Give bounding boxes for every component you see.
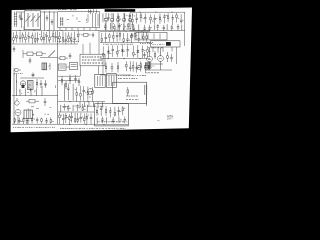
resistor R104 xyxy=(81,34,91,37)
wire xyxy=(105,13,107,18)
value label xyxy=(13,126,55,128)
resistor R19 xyxy=(59,32,61,43)
transistor T6 xyxy=(147,56,153,62)
wire xyxy=(114,13,133,30)
resistor R59 xyxy=(65,113,67,123)
capacitor C102 xyxy=(69,53,72,59)
wire xyxy=(181,25,183,31)
resistor R68 xyxy=(105,106,107,115)
wire xyxy=(102,59,104,75)
transistor T4 xyxy=(122,18,125,21)
wire xyxy=(84,102,86,108)
resistor R7 xyxy=(167,13,169,22)
wire xyxy=(129,22,131,31)
value label xyxy=(178,18,179,20)
wire xyxy=(124,13,126,21)
wire xyxy=(58,123,128,125)
wire xyxy=(100,30,150,32)
resistor R70 xyxy=(122,106,124,115)
capacitor C41 xyxy=(44,98,46,106)
value label xyxy=(120,18,121,20)
wire xyxy=(86,105,88,112)
value label xyxy=(44,33,47,35)
value label xyxy=(136,35,137,37)
wire xyxy=(17,116,19,125)
svg-text:1977: 1977 xyxy=(167,117,173,121)
capacitor C40 xyxy=(44,80,46,88)
transistor T11 xyxy=(88,89,94,95)
capacitor C8 xyxy=(144,13,146,23)
capacitor C20 xyxy=(19,32,21,43)
resistor R50 xyxy=(80,86,82,101)
wire xyxy=(113,13,115,21)
resistor R23 xyxy=(77,31,79,42)
capacitor C17 xyxy=(163,25,165,31)
capacitor C11 xyxy=(171,14,173,25)
capacitor C42 xyxy=(74,75,76,83)
capacitor C32 xyxy=(126,45,128,56)
resistor R38 xyxy=(167,52,169,62)
resistor R61 xyxy=(74,113,76,123)
value label xyxy=(135,54,136,56)
capacitor C38 xyxy=(144,62,146,72)
value label xyxy=(147,65,155,67)
variable arrow xyxy=(49,51,56,58)
wire xyxy=(111,22,113,31)
resistor R31 xyxy=(143,32,145,41)
resistor R47 xyxy=(69,75,71,85)
value label xyxy=(69,107,71,109)
transistor T3 xyxy=(116,18,119,21)
capacitor C50 xyxy=(62,114,64,125)
wire xyxy=(13,108,15,124)
resistor R103 xyxy=(58,57,68,60)
capacitor C54 xyxy=(63,104,65,111)
value label xyxy=(97,113,100,115)
value label xyxy=(36,39,39,41)
capacitor C53 xyxy=(90,113,92,124)
value label xyxy=(15,36,17,38)
resistor R37 xyxy=(154,51,156,59)
diode D2 xyxy=(121,45,124,56)
switch box S1 xyxy=(151,41,181,47)
resistor R8 xyxy=(176,13,178,23)
value label xyxy=(57,40,79,42)
value label xyxy=(82,59,103,61)
node xyxy=(171,12,172,13)
coil L2 xyxy=(60,17,63,26)
wire xyxy=(118,117,120,123)
resistor R6 xyxy=(159,13,161,23)
value label xyxy=(166,14,168,16)
value label xyxy=(126,99,139,101)
wire xyxy=(12,43,78,45)
wire xyxy=(57,102,59,125)
value label xyxy=(149,51,150,53)
capacitor C51 xyxy=(71,113,73,123)
capacitor C33 xyxy=(141,45,143,58)
value label xyxy=(65,106,66,108)
resistor R45 xyxy=(36,79,38,88)
value label xyxy=(115,29,116,31)
capacitor C58 xyxy=(118,107,120,116)
resistor R48 xyxy=(65,81,67,89)
wire xyxy=(40,57,58,59)
value label xyxy=(70,9,77,11)
value label xyxy=(126,95,139,97)
capacitor C15 xyxy=(148,25,150,31)
value label xyxy=(30,37,31,39)
node xyxy=(107,58,108,59)
capacitor C4 xyxy=(104,23,106,30)
transformer T4 xyxy=(146,63,151,68)
wire xyxy=(152,47,154,52)
resistor R57 xyxy=(50,117,52,123)
capacitor C61 xyxy=(124,117,126,124)
capacitor C101 xyxy=(29,58,32,64)
capacitor C104 xyxy=(13,46,15,52)
capacitor C105 xyxy=(92,33,94,38)
capacitor C56 xyxy=(100,106,102,116)
resistor R49 xyxy=(76,87,78,102)
wire xyxy=(58,75,80,77)
value label xyxy=(80,105,104,107)
resistor R60 xyxy=(69,114,71,125)
resistor R101 xyxy=(23,52,37,56)
wire xyxy=(145,69,172,71)
wire xyxy=(58,111,94,113)
wire xyxy=(149,48,151,56)
wire xyxy=(71,28,73,31)
node xyxy=(109,31,110,32)
capacitor C110 xyxy=(15,98,19,105)
wire xyxy=(36,88,38,95)
capacitor C34 xyxy=(170,54,172,62)
value label xyxy=(77,118,79,120)
value label xyxy=(129,39,131,41)
capacitor C2 xyxy=(117,14,119,21)
resistor R24 xyxy=(101,33,103,42)
resistor R15 xyxy=(41,31,43,42)
wire xyxy=(87,14,89,22)
value label xyxy=(109,14,112,16)
value label xyxy=(27,34,28,36)
wire xyxy=(88,10,90,14)
resistor R5 xyxy=(150,15,152,24)
wire xyxy=(30,88,32,96)
capacitor C13 xyxy=(133,25,135,31)
value label xyxy=(121,24,122,26)
capacitor C27 xyxy=(105,33,107,43)
wire xyxy=(17,11,25,13)
resistor R11 xyxy=(22,32,24,42)
wire xyxy=(157,120,160,122)
value label xyxy=(61,114,62,116)
resistor R52 xyxy=(92,87,94,101)
value label xyxy=(104,17,106,19)
wire xyxy=(29,107,52,116)
resistor R41 xyxy=(126,61,128,71)
wire xyxy=(146,95,148,106)
capacitor C3 xyxy=(129,14,131,22)
value label xyxy=(21,121,22,123)
value label xyxy=(120,119,122,121)
wire xyxy=(97,102,99,108)
IF transformer IFT2 xyxy=(95,74,105,87)
wire xyxy=(130,11,185,13)
wire xyxy=(72,84,74,101)
resistor R62 xyxy=(77,113,79,123)
value label xyxy=(152,20,154,22)
parts table box xyxy=(80,54,105,66)
value label xyxy=(124,50,125,52)
capacitor C59 xyxy=(101,117,103,124)
value label xyxy=(75,89,76,91)
resistor R69 xyxy=(114,107,116,117)
value label xyxy=(84,91,87,93)
value label xyxy=(160,20,163,22)
resistor R56 xyxy=(41,117,43,123)
wire xyxy=(72,105,74,111)
resistor R67 xyxy=(96,107,98,116)
node xyxy=(85,124,86,125)
value label xyxy=(103,43,133,45)
node xyxy=(19,30,20,31)
value label xyxy=(78,117,81,119)
resistor R39 xyxy=(105,63,107,73)
value label xyxy=(144,49,146,51)
capacitor C47 xyxy=(26,118,28,124)
value label xyxy=(82,62,103,64)
wire xyxy=(184,12,186,46)
capacitor C45 xyxy=(67,84,69,101)
capacitor C9 xyxy=(154,15,156,24)
wire xyxy=(22,50,24,58)
resistor R55 xyxy=(31,117,33,123)
wire xyxy=(44,11,46,31)
value label xyxy=(58,9,67,11)
resistor R120 xyxy=(127,87,129,96)
capacitor C29 xyxy=(126,33,128,42)
wire xyxy=(64,83,66,100)
jack J1 xyxy=(14,68,21,75)
value label xyxy=(125,25,126,27)
resistor R16 xyxy=(43,32,45,44)
transistor T10 xyxy=(20,81,25,86)
resistor R18 xyxy=(52,31,54,43)
resistor R12 xyxy=(25,32,27,43)
wire xyxy=(65,28,67,31)
resistor R65 xyxy=(67,105,69,112)
resistor R21 xyxy=(68,32,70,42)
node xyxy=(69,124,70,125)
value label xyxy=(52,121,54,123)
wire xyxy=(117,22,119,31)
wire xyxy=(21,12,23,28)
capacitor C25 xyxy=(65,33,67,45)
value label xyxy=(62,105,63,107)
wire xyxy=(92,13,94,27)
resistor R33 xyxy=(102,46,104,58)
value label xyxy=(147,42,153,44)
value label xyxy=(148,47,163,49)
capacitor C1 xyxy=(107,13,109,21)
wire xyxy=(27,118,29,124)
choke box FL1 xyxy=(58,64,66,70)
capacitor C23 xyxy=(45,32,47,43)
wire xyxy=(100,58,150,60)
amplifier box A1 xyxy=(95,104,129,126)
wire xyxy=(105,22,107,31)
wire xyxy=(93,9,95,13)
wire xyxy=(145,63,163,65)
resistor R25 xyxy=(109,33,111,42)
capacitor C16 xyxy=(157,24,159,30)
resistor R110 xyxy=(26,100,39,103)
wire xyxy=(12,95,58,97)
resistor R9 xyxy=(13,32,15,43)
wire xyxy=(83,28,85,31)
value label xyxy=(130,27,131,29)
IF transformer IFT3 xyxy=(107,74,117,88)
node xyxy=(47,30,48,31)
wire xyxy=(117,13,119,18)
value label xyxy=(125,121,128,123)
wire xyxy=(25,9,27,12)
wire xyxy=(20,77,44,79)
wire xyxy=(59,28,61,31)
transistor T7 xyxy=(158,56,164,62)
value label xyxy=(97,121,125,123)
resistor R32 xyxy=(146,32,148,42)
wire xyxy=(95,13,97,27)
value label xyxy=(138,66,139,68)
value label xyxy=(70,37,71,39)
value label xyxy=(79,33,80,35)
wire xyxy=(98,66,100,75)
wire xyxy=(41,11,57,13)
resistor R1 xyxy=(114,24,116,31)
wire xyxy=(97,14,99,26)
resistor R30 xyxy=(134,32,136,41)
wire xyxy=(102,13,104,22)
value label xyxy=(150,26,151,28)
wire xyxy=(12,30,100,32)
wire xyxy=(96,10,98,14)
choke box FL2 xyxy=(70,62,78,69)
value label xyxy=(134,15,135,17)
resistor R28 xyxy=(123,33,125,43)
wire xyxy=(80,66,82,76)
capacitor C43 xyxy=(78,78,80,86)
value label xyxy=(14,73,23,75)
value label xyxy=(124,107,126,109)
node xyxy=(141,31,142,32)
capacitor C14 xyxy=(143,25,145,30)
resistor R26 xyxy=(113,32,115,42)
IF transformer box IFT1 xyxy=(136,32,167,40)
capacitor C37 xyxy=(136,62,138,72)
value label xyxy=(110,53,112,55)
wire xyxy=(30,9,32,12)
value label xyxy=(26,8,38,10)
wire xyxy=(129,13,131,18)
wire xyxy=(100,74,131,76)
wire xyxy=(166,24,168,30)
value label xyxy=(153,43,165,45)
trimmer capacitor C3 xyxy=(51,19,53,25)
wire xyxy=(100,42,150,44)
capacitor C5 xyxy=(118,23,120,30)
transistor T12 xyxy=(15,110,21,116)
capacitor C28 xyxy=(116,32,118,42)
transformer T3 xyxy=(24,110,32,118)
value label xyxy=(118,78,138,80)
value label xyxy=(112,26,114,28)
wire xyxy=(93,102,95,107)
wire xyxy=(123,22,125,31)
value label xyxy=(39,34,40,36)
value label xyxy=(85,116,87,118)
value label xyxy=(142,17,143,19)
capacitor C39 xyxy=(40,80,42,88)
resistor R44 xyxy=(148,61,150,70)
resistor R13 xyxy=(32,32,34,43)
wire xyxy=(153,24,155,29)
wire xyxy=(25,88,27,95)
capacitor C52 xyxy=(80,113,82,123)
resistor R10 xyxy=(16,31,17,42)
transistor T8 xyxy=(137,65,142,70)
resistor R35 xyxy=(133,46,135,58)
node xyxy=(139,58,140,59)
capacitor C49 xyxy=(45,118,47,124)
node xyxy=(69,101,70,102)
wire xyxy=(162,47,164,52)
resistor R46 xyxy=(61,76,63,85)
wire xyxy=(57,31,59,102)
label plate xyxy=(105,9,136,12)
diode D1 xyxy=(107,46,110,58)
capacitor C10 xyxy=(163,14,165,23)
resistor R27 xyxy=(119,32,121,41)
wire xyxy=(123,24,125,31)
capacitor C60 xyxy=(112,117,114,123)
wire xyxy=(157,47,159,53)
wire xyxy=(12,123,58,125)
resistor R20 xyxy=(62,31,64,43)
wire xyxy=(88,102,90,107)
wire xyxy=(160,48,162,56)
capacitor C19 xyxy=(177,24,179,30)
value label xyxy=(82,56,103,58)
resistor R4 xyxy=(140,13,142,22)
dial scale box xyxy=(58,12,100,28)
wire xyxy=(77,28,79,31)
trimmer capacitor C2 xyxy=(46,15,48,21)
resistor R14 xyxy=(34,33,36,44)
value label xyxy=(28,119,29,121)
resistor R51 xyxy=(87,87,89,101)
node xyxy=(33,30,34,31)
wire xyxy=(149,62,151,70)
wire xyxy=(160,61,162,70)
resistor R3 xyxy=(132,14,134,24)
value label xyxy=(118,75,146,77)
resistor R22 xyxy=(70,33,72,45)
capacitor C4 xyxy=(20,19,22,20)
value label xyxy=(65,117,67,119)
